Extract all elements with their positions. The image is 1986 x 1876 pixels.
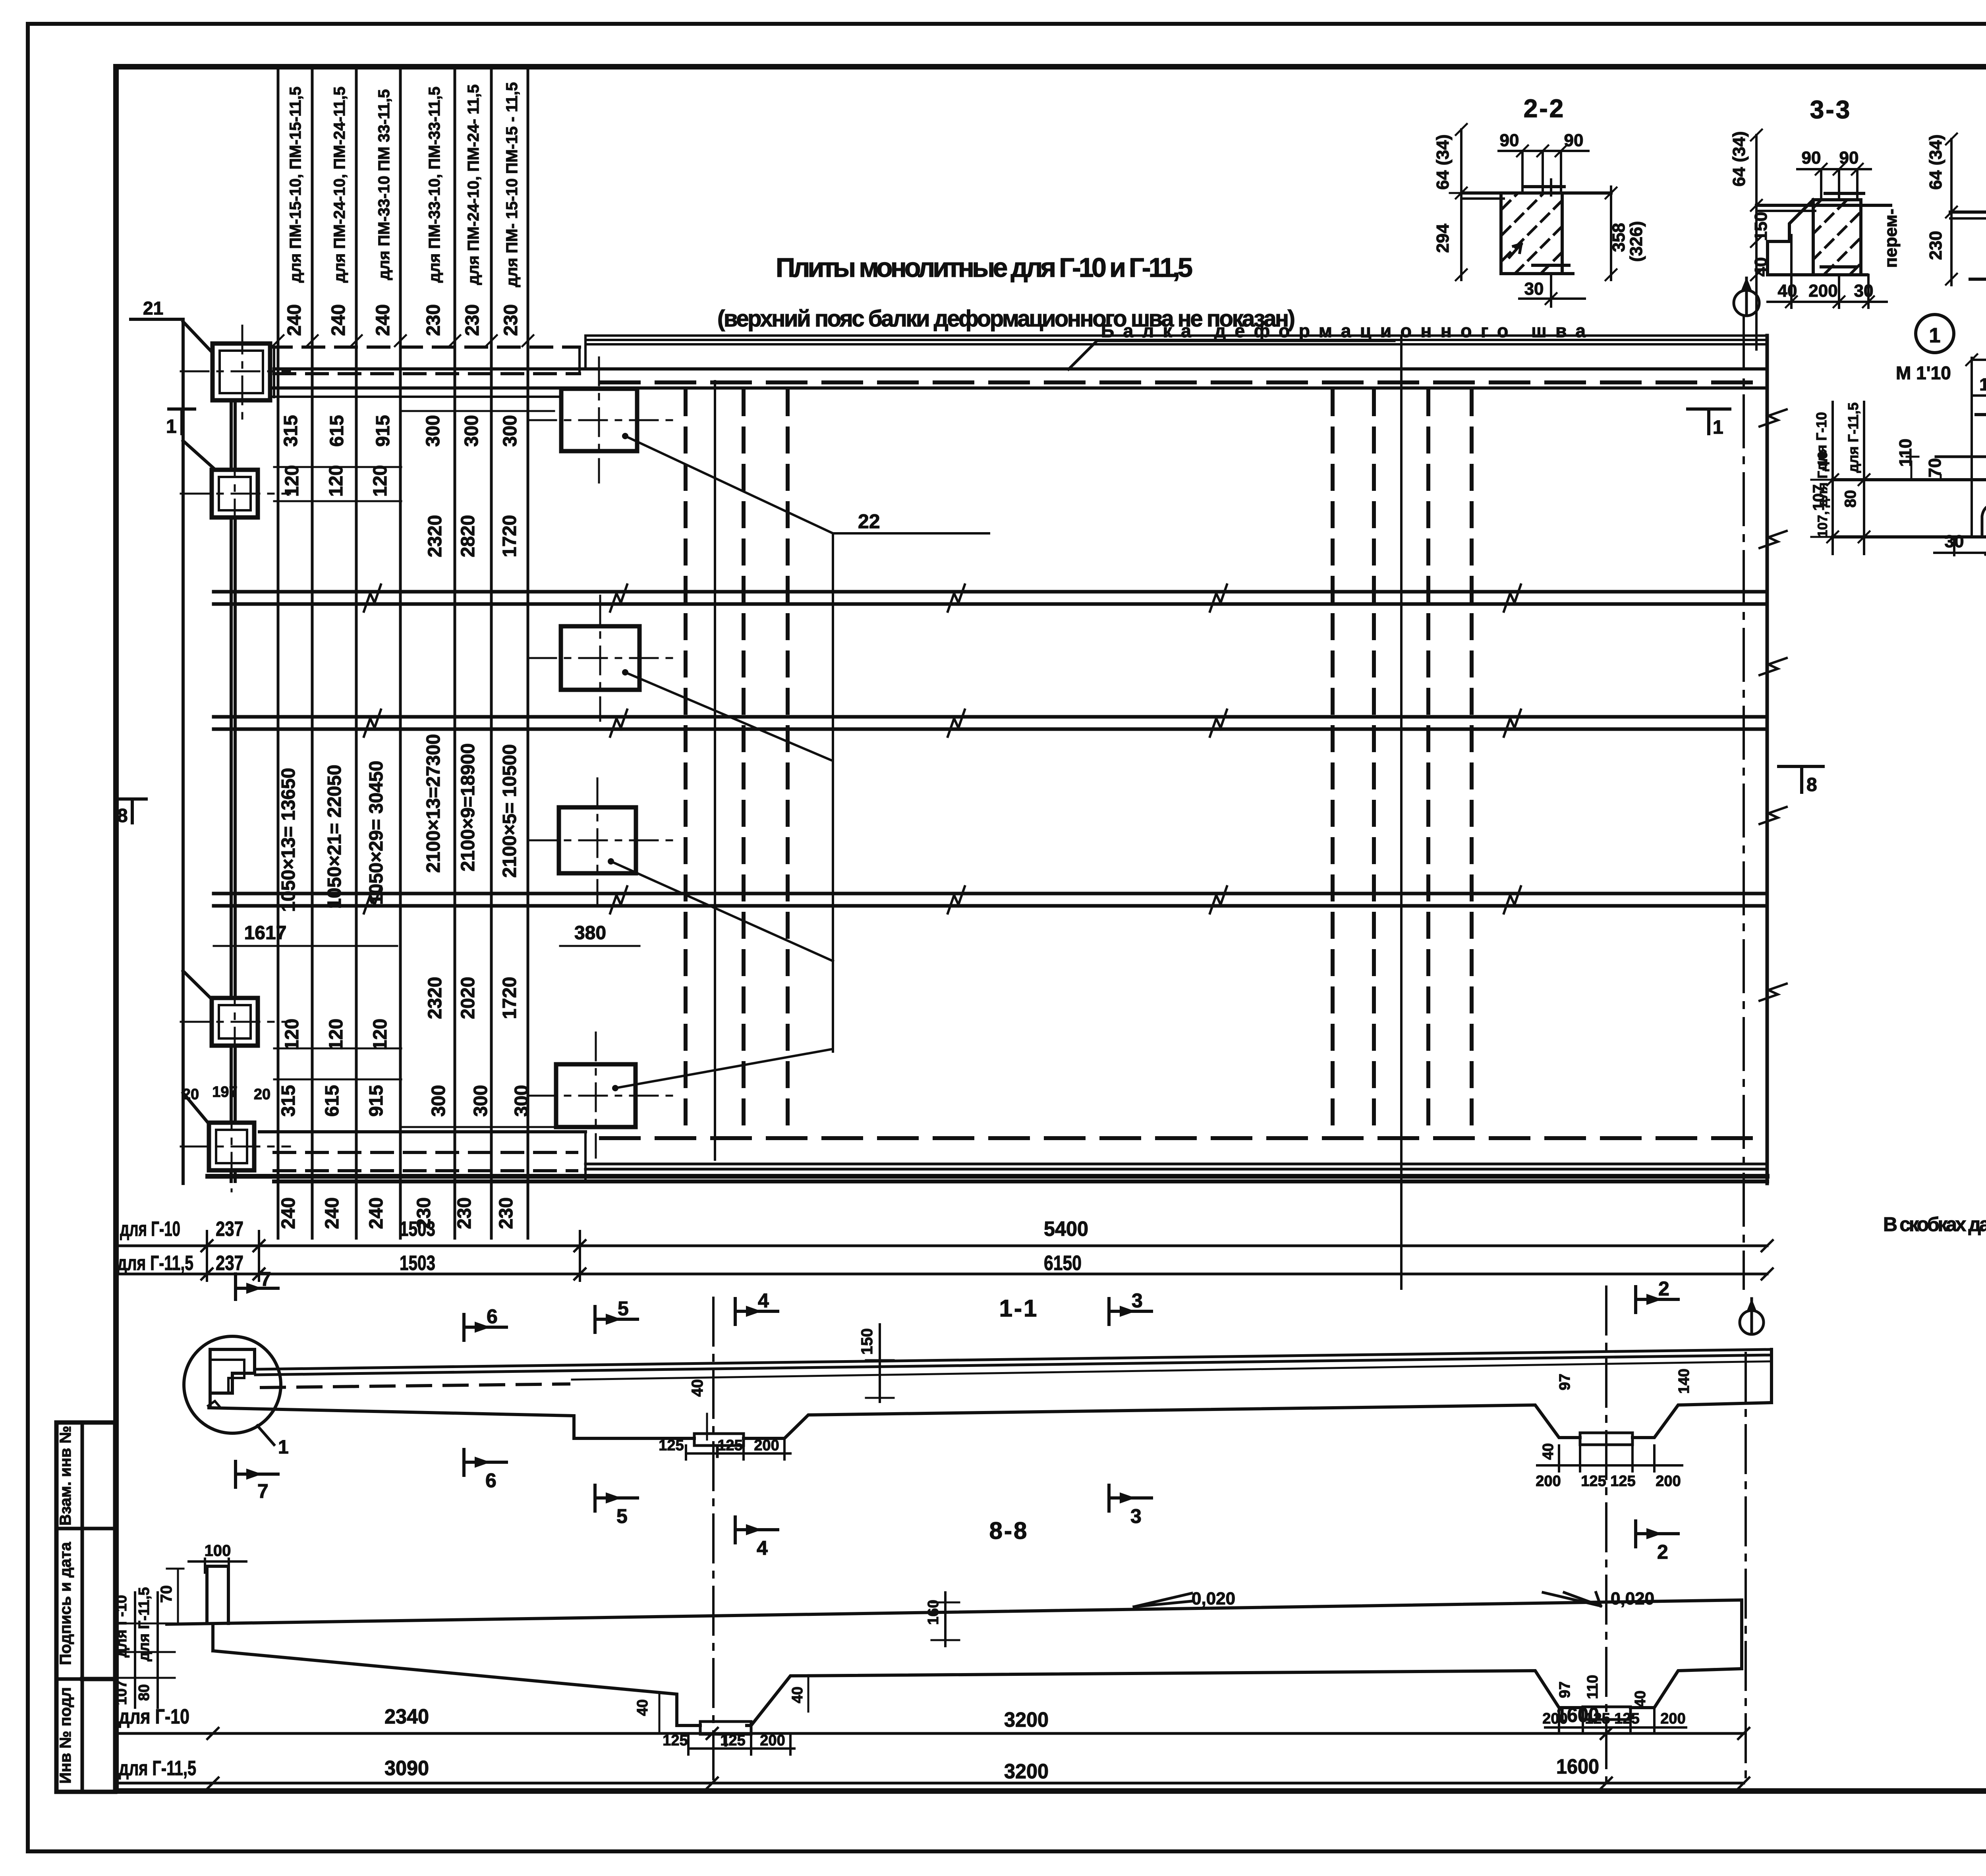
svg-text:1-1: 1-1	[999, 1295, 1039, 1322]
svg-text:М 1'10: М 1'10	[1896, 363, 1951, 383]
svg-text:120: 120	[326, 1019, 347, 1050]
svg-text:5400: 5400	[1044, 1218, 1088, 1241]
svg-text:Плиты монолитные для Г-10: Плиты монолитные для Г-10 и Г-11,5	[776, 253, 1193, 283]
svg-text:30: 30	[1945, 532, 1964, 551]
svg-text:160: 160	[925, 1600, 942, 1625]
svg-text:4: 4	[757, 1537, 768, 1559]
svg-text:2320: 2320	[425, 977, 446, 1019]
svg-text:240: 240	[322, 1197, 343, 1229]
svg-text:для Г-10: для Г-10	[119, 1705, 189, 1728]
deck top lines	[255, 1349, 1772, 1380]
svg-text:230: 230	[462, 304, 483, 336]
svg-text:97: 97	[1557, 1681, 1573, 1698]
svg-text:40: 40	[1540, 1443, 1557, 1460]
svg-text:200: 200	[754, 1437, 779, 1454]
svg-text:3200: 3200	[1004, 1708, 1049, 1731]
svg-text:150: 150	[1751, 212, 1771, 241]
svg-text:1503: 1503	[400, 1218, 435, 1241]
main titles	[717, 253, 1986, 1235]
bottom dimension rows	[117, 1246, 1767, 1274]
svg-text:40: 40	[1751, 257, 1771, 277]
svg-text:Инв № подл: Инв № подл	[57, 1687, 74, 1783]
svg-text:3: 3	[1132, 1289, 1143, 1312]
svg-text:40: 40	[1632, 1691, 1649, 1707]
svg-text:для ПМ-24-10, ПМ-24-11,5: для ПМ-24-10, ПМ-24-11,5	[331, 87, 348, 283]
left/right section cut markers	[119, 409, 1823, 823]
svg-text:5: 5	[616, 1505, 628, 1527]
svg-text:40: 40	[789, 1687, 806, 1703]
svg-text:для Г-11,5: для Г-11,5	[136, 1587, 153, 1661]
svg-text:70: 70	[158, 1585, 175, 1603]
svg-text:300: 300	[500, 415, 521, 447]
dims near rib1	[686, 1324, 894, 1459]
break marks on beams	[364, 409, 1787, 1001]
svg-text:0,020: 0,020	[1611, 1589, 1654, 1608]
svg-text:230: 230	[1926, 231, 1945, 260]
svg-text:2020: 2020	[458, 977, 479, 1019]
svg-text:300: 300	[461, 415, 482, 447]
svg-text:240: 240	[284, 304, 305, 336]
plan left edge (G-11,5 variant)	[183, 319, 235, 1183]
svg-text:6: 6	[485, 1469, 496, 1492]
svg-text:64 (34): 64 (34)	[1926, 134, 1945, 189]
svg-text:6: 6	[487, 1305, 498, 1328]
svg-text:125: 125	[1581, 1473, 1606, 1490]
svg-text:1617: 1617	[244, 923, 287, 944]
PLAN VIEW	[117, 277, 1830, 1289]
svg-text:для Г-11,5: для Г-11,5	[117, 1252, 193, 1275]
svg-text:2-2: 2-2	[1524, 94, 1565, 123]
svg-text:1: 1	[278, 1437, 289, 1458]
slope marks	[1134, 1592, 1601, 1607]
svg-text:8: 8	[1806, 774, 1817, 795]
svg-text:1050×21= 22050: 1050×21= 22050	[324, 764, 345, 909]
svg-text:1600: 1600	[1556, 1704, 1599, 1727]
svg-text:90: 90	[1839, 148, 1859, 168]
svg-text:615: 615	[322, 1085, 343, 1117]
svg-text:2320: 2320	[425, 515, 446, 558]
svg-text:125: 125	[659, 1437, 684, 1454]
svg-text:240: 240	[328, 304, 349, 336]
svg-text:30: 30	[1524, 279, 1544, 299]
detail circle	[184, 1336, 281, 1433]
svg-text:97: 97	[1557, 1374, 1573, 1390]
svg-text:110: 110	[1584, 1675, 1601, 1699]
left margin stamp boxes	[56, 1422, 115, 1792]
svg-text:2100×5= 10500: 2100×5= 10500	[499, 744, 520, 878]
svg-text:80: 80	[1842, 490, 1859, 508]
svg-text:для Г-11,5: для Г-11,5	[119, 1757, 196, 1780]
svg-text:125: 125	[1610, 1473, 1635, 1490]
svg-text:1720: 1720	[499, 977, 520, 1019]
svg-text:3: 3	[1130, 1505, 1142, 1527]
svg-text:для Г-11,5: для Г-11,5	[1845, 402, 1861, 473]
svg-text:237: 237	[216, 1218, 243, 1241]
axis circle A	[1734, 277, 1759, 316]
dimension tick lines inside plan	[214, 411, 639, 1127]
svg-text:230: 230	[500, 304, 522, 336]
svg-text:22: 22	[858, 510, 880, 533]
svg-text:294: 294	[1433, 224, 1453, 253]
svg-text:2820: 2820	[458, 515, 479, 558]
svg-text:перем-: перем-	[1881, 208, 1901, 268]
svg-text:2: 2	[1658, 1278, 1669, 1300]
svg-text:125: 125	[1614, 1710, 1639, 1727]
svg-text:для ПМ- 15-10 ПМ-15 - 11,5: для ПМ- 15-10 ПМ-15 - 11,5	[503, 82, 521, 287]
SECTION 1-1	[184, 1268, 1772, 1787]
svg-text:20: 20	[254, 1086, 270, 1103]
svg-text:200: 200	[1808, 281, 1837, 301]
left upstand	[207, 1566, 228, 1623]
svg-text:100: 100	[1979, 375, 1986, 394]
plan internal dimension texts (rotated)	[182, 415, 606, 1229]
svg-text:1: 1	[1929, 324, 1941, 347]
axis dash-dot lines	[714, 381, 716, 1160]
svg-text:200: 200	[1660, 1710, 1685, 1727]
svg-text:40: 40	[1778, 281, 1797, 301]
svg-text:2100×13=27300: 2100×13=27300	[423, 734, 444, 873]
svg-text:3-3: 3-3	[1810, 95, 1852, 124]
column end ticks	[272, 335, 533, 346]
axis circle at right end	[1740, 1310, 1764, 1334]
svg-text:1503: 1503	[400, 1252, 435, 1275]
svg-text:315: 315	[278, 1085, 299, 1117]
interior beam double lines	[214, 592, 1767, 906]
svg-text:2: 2	[1657, 1541, 1668, 1563]
svg-text:для ПМ-15-10, ПМ-15-11,5: для ПМ-15-10, ПМ-15-11,5	[287, 87, 304, 283]
svg-text:315: 315	[280, 415, 301, 447]
svg-text:для Г-10: для Г-10	[113, 1595, 130, 1657]
rib1 dims	[659, 1592, 959, 1754]
bottom profile	[209, 1349, 1772, 1457]
svg-text:150: 150	[858, 1328, 876, 1355]
svg-text:915: 915	[366, 1085, 387, 1117]
svg-text:240: 240	[366, 1197, 387, 1229]
SECTION 2-2	[1433, 94, 1646, 307]
svg-text:120: 120	[282, 1019, 303, 1050]
svg-text:30: 30	[1854, 281, 1874, 301]
leader 22	[608, 433, 989, 1091]
svg-text:100: 100	[205, 1542, 231, 1559]
svg-text:1: 1	[1713, 417, 1723, 438]
svg-text:915: 915	[373, 415, 394, 447]
SECTION 8-8	[113, 1517, 1749, 1789]
svg-text:для ПМ-24-10, ПМ-24- 11,5: для ПМ-24-10, ПМ-24- 11,5	[465, 84, 482, 285]
svg-text:380: 380	[574, 923, 606, 944]
deck top	[167, 1600, 1742, 1624]
svg-text:1: 1	[166, 416, 177, 437]
svg-text:8: 8	[117, 805, 128, 826]
svg-text:64 (34): 64 (34)	[1729, 131, 1749, 186]
svg-text:230: 230	[454, 1197, 475, 1229]
DETAIL 1	[1810, 315, 1986, 555]
svg-text:40: 40	[689, 1379, 706, 1397]
plan right edge	[1766, 336, 1769, 1183]
section cut markers top row	[236, 1274, 1678, 1340]
square centerlines	[181, 326, 290, 1191]
svg-text:230: 230	[496, 1197, 517, 1229]
svg-text:(326): (326)	[1627, 221, 1646, 262]
svg-text:120: 120	[282, 465, 303, 497]
svg-text:1600: 1600	[1556, 1755, 1599, 1778]
svg-text:358: 358	[1609, 223, 1629, 252]
svg-text:Подпись и дата: Подпись и дата	[57, 1542, 74, 1665]
svg-text:240: 240	[278, 1197, 299, 1229]
svg-text:90: 90	[1500, 131, 1519, 150]
svg-text:7: 7	[260, 1268, 271, 1290]
left column squares	[209, 344, 270, 1170]
vertical dashed construction lines	[686, 391, 1472, 1130]
svg-text:1050×29= 30450: 1050×29= 30450	[366, 760, 387, 905]
svg-text:120: 120	[370, 1019, 391, 1050]
svg-text:21: 21	[143, 298, 163, 318]
svg-text:615: 615	[326, 415, 348, 447]
svg-text:для Г-10: для Г-10	[1813, 412, 1830, 471]
top-left column table	[278, 68, 528, 1238]
svg-text:80: 80	[136, 1684, 153, 1701]
top band deformation joint beam	[216, 336, 1767, 397]
bottom profile	[213, 1600, 1742, 1745]
svg-text:230: 230	[423, 304, 444, 336]
middle squares	[556, 389, 639, 1127]
svg-text:для Г-10: для Г-10	[120, 1218, 180, 1241]
svg-text:90: 90	[1564, 131, 1584, 150]
leader line under label	[1068, 341, 1394, 369]
svg-text:300: 300	[511, 1085, 532, 1117]
thin solid vertical	[1400, 336, 1403, 1289]
svg-text:3200: 3200	[1004, 1760, 1049, 1783]
svg-text:200: 200	[1656, 1473, 1681, 1490]
svg-text:для ПМ-33-10, ПМ-33-11,5: для ПМ-33-10, ПМ-33-11,5	[426, 87, 443, 283]
svg-text:90: 90	[1802, 148, 1821, 168]
svg-text:107: 107	[113, 1680, 130, 1705]
svg-text:240: 240	[373, 304, 394, 336]
svg-text:1050×13= 13650: 1050×13= 13650	[278, 768, 299, 912]
svg-text:237: 237	[216, 1252, 243, 1275]
svg-text:8-8: 8-8	[989, 1517, 1029, 1544]
svg-text:5: 5	[618, 1297, 629, 1320]
svg-text:1720: 1720	[499, 515, 520, 558]
svg-text:70: 70	[1925, 458, 1945, 478]
bottom markers	[236, 1449, 1678, 1547]
svg-text:0,020: 0,020	[1192, 1589, 1235, 1608]
svg-text:300: 300	[423, 415, 444, 447]
svg-text:4: 4	[758, 1289, 769, 1312]
svg-text:Взам. инв №: Взам. инв №	[57, 1426, 74, 1525]
svg-text:64 (34): 64 (34)	[1433, 134, 1453, 189]
svg-text:2340: 2340	[384, 1705, 429, 1728]
svg-text:для ПМ-33-10 ПМ 33-11,5: для ПМ-33-10 ПМ 33-11,5	[375, 89, 393, 280]
svg-text:107: 107	[1810, 484, 1828, 511]
SECTION 3-3	[1729, 95, 1901, 349]
svg-text:2100×9=18900: 2100×9=18900	[458, 743, 479, 871]
svg-text:В скобках даны размеры при: В скобках даны размеры при цементобетонн…	[1883, 1213, 1986, 1235]
svg-text:125: 125	[717, 1437, 742, 1454]
svg-text:120: 120	[326, 465, 347, 497]
bottom band	[208, 1132, 1767, 1181]
svg-text:120: 120	[370, 465, 391, 497]
dims near rib2	[1537, 1446, 1682, 1471]
svg-text:140: 140	[1676, 1368, 1692, 1393]
axes of ribs	[712, 1298, 715, 1787]
svg-text:200: 200	[1536, 1473, 1561, 1490]
svg-text:300: 300	[470, 1085, 491, 1117]
svg-text:3090: 3090	[384, 1757, 429, 1780]
svg-text:197: 197	[212, 1084, 237, 1100]
svg-text:7: 7	[257, 1480, 269, 1502]
SECTION 4-4	[1926, 96, 1986, 312]
svg-text:20: 20	[182, 1086, 199, 1103]
dims left end	[119, 1559, 246, 1708]
bottom dim rows	[117, 1733, 1744, 1783]
svg-text:300: 300	[428, 1085, 449, 1117]
svg-text:(верхний пояс балки деформа: (верхний пояс балки деформационного шва …	[717, 306, 1295, 332]
svg-text:6150: 6150	[1044, 1252, 1082, 1275]
rib2 dims	[1545, 1710, 1686, 1733]
svg-text:40: 40	[634, 1699, 651, 1716]
svg-text:110: 110	[1896, 439, 1915, 467]
